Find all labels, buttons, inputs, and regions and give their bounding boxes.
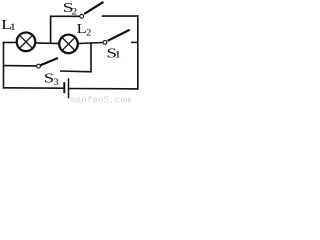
lamp L1 [17, 33, 36, 52]
wire: main line right of L2 [78, 43, 103, 44]
lamp L2 [59, 35, 78, 54]
svg-text:2: 2 [86, 27, 92, 38]
label S1 [106, 46, 121, 61]
wire: main line left segment [3, 41, 17, 43]
wire: right vertical [137, 15, 139, 89]
svg-text:manfen5.com: manfen5.com [70, 95, 131, 104]
svg-text:1: 1 [114, 50, 121, 61]
wire: S2 branch riser [50, 16, 52, 44]
wire: between L1 and L2 [36, 42, 59, 45]
wire: S2 branch top right [102, 15, 139, 17]
wire: S3 branch left segment [3, 65, 37, 67]
wire: battery to bottom right [69, 88, 138, 90]
wire: S2 branch top left [50, 15, 80, 17]
switch S3 pivot [37, 64, 41, 68]
wire: S3 branch right segment [60, 70, 92, 73]
battery positive plate (long) [68, 78, 70, 98]
wire: bottom left to battery [3, 87, 64, 89]
label L1 [1, 17, 16, 33]
svg-text:1: 1 [10, 22, 17, 33]
switch S3 lever [40, 58, 58, 65]
background [0, 0, 141, 104]
wire: after S1 [131, 41, 139, 43]
label S3 [44, 71, 59, 88]
wire: junction dropper after L2 [90, 43, 92, 73]
switch S2 pivot [80, 14, 84, 18]
svg-text:2: 2 [71, 6, 77, 17]
label S2 [63, 0, 78, 17]
switch S1 lever [108, 30, 130, 41]
switch S1 pivot [103, 41, 107, 45]
battery negative plate (short) [63, 82, 65, 93]
label L2 [77, 21, 92, 38]
switch S2 lever [84, 2, 103, 14]
wire: left vertical [3, 42, 5, 89]
svg-text:3: 3 [53, 77, 58, 88]
